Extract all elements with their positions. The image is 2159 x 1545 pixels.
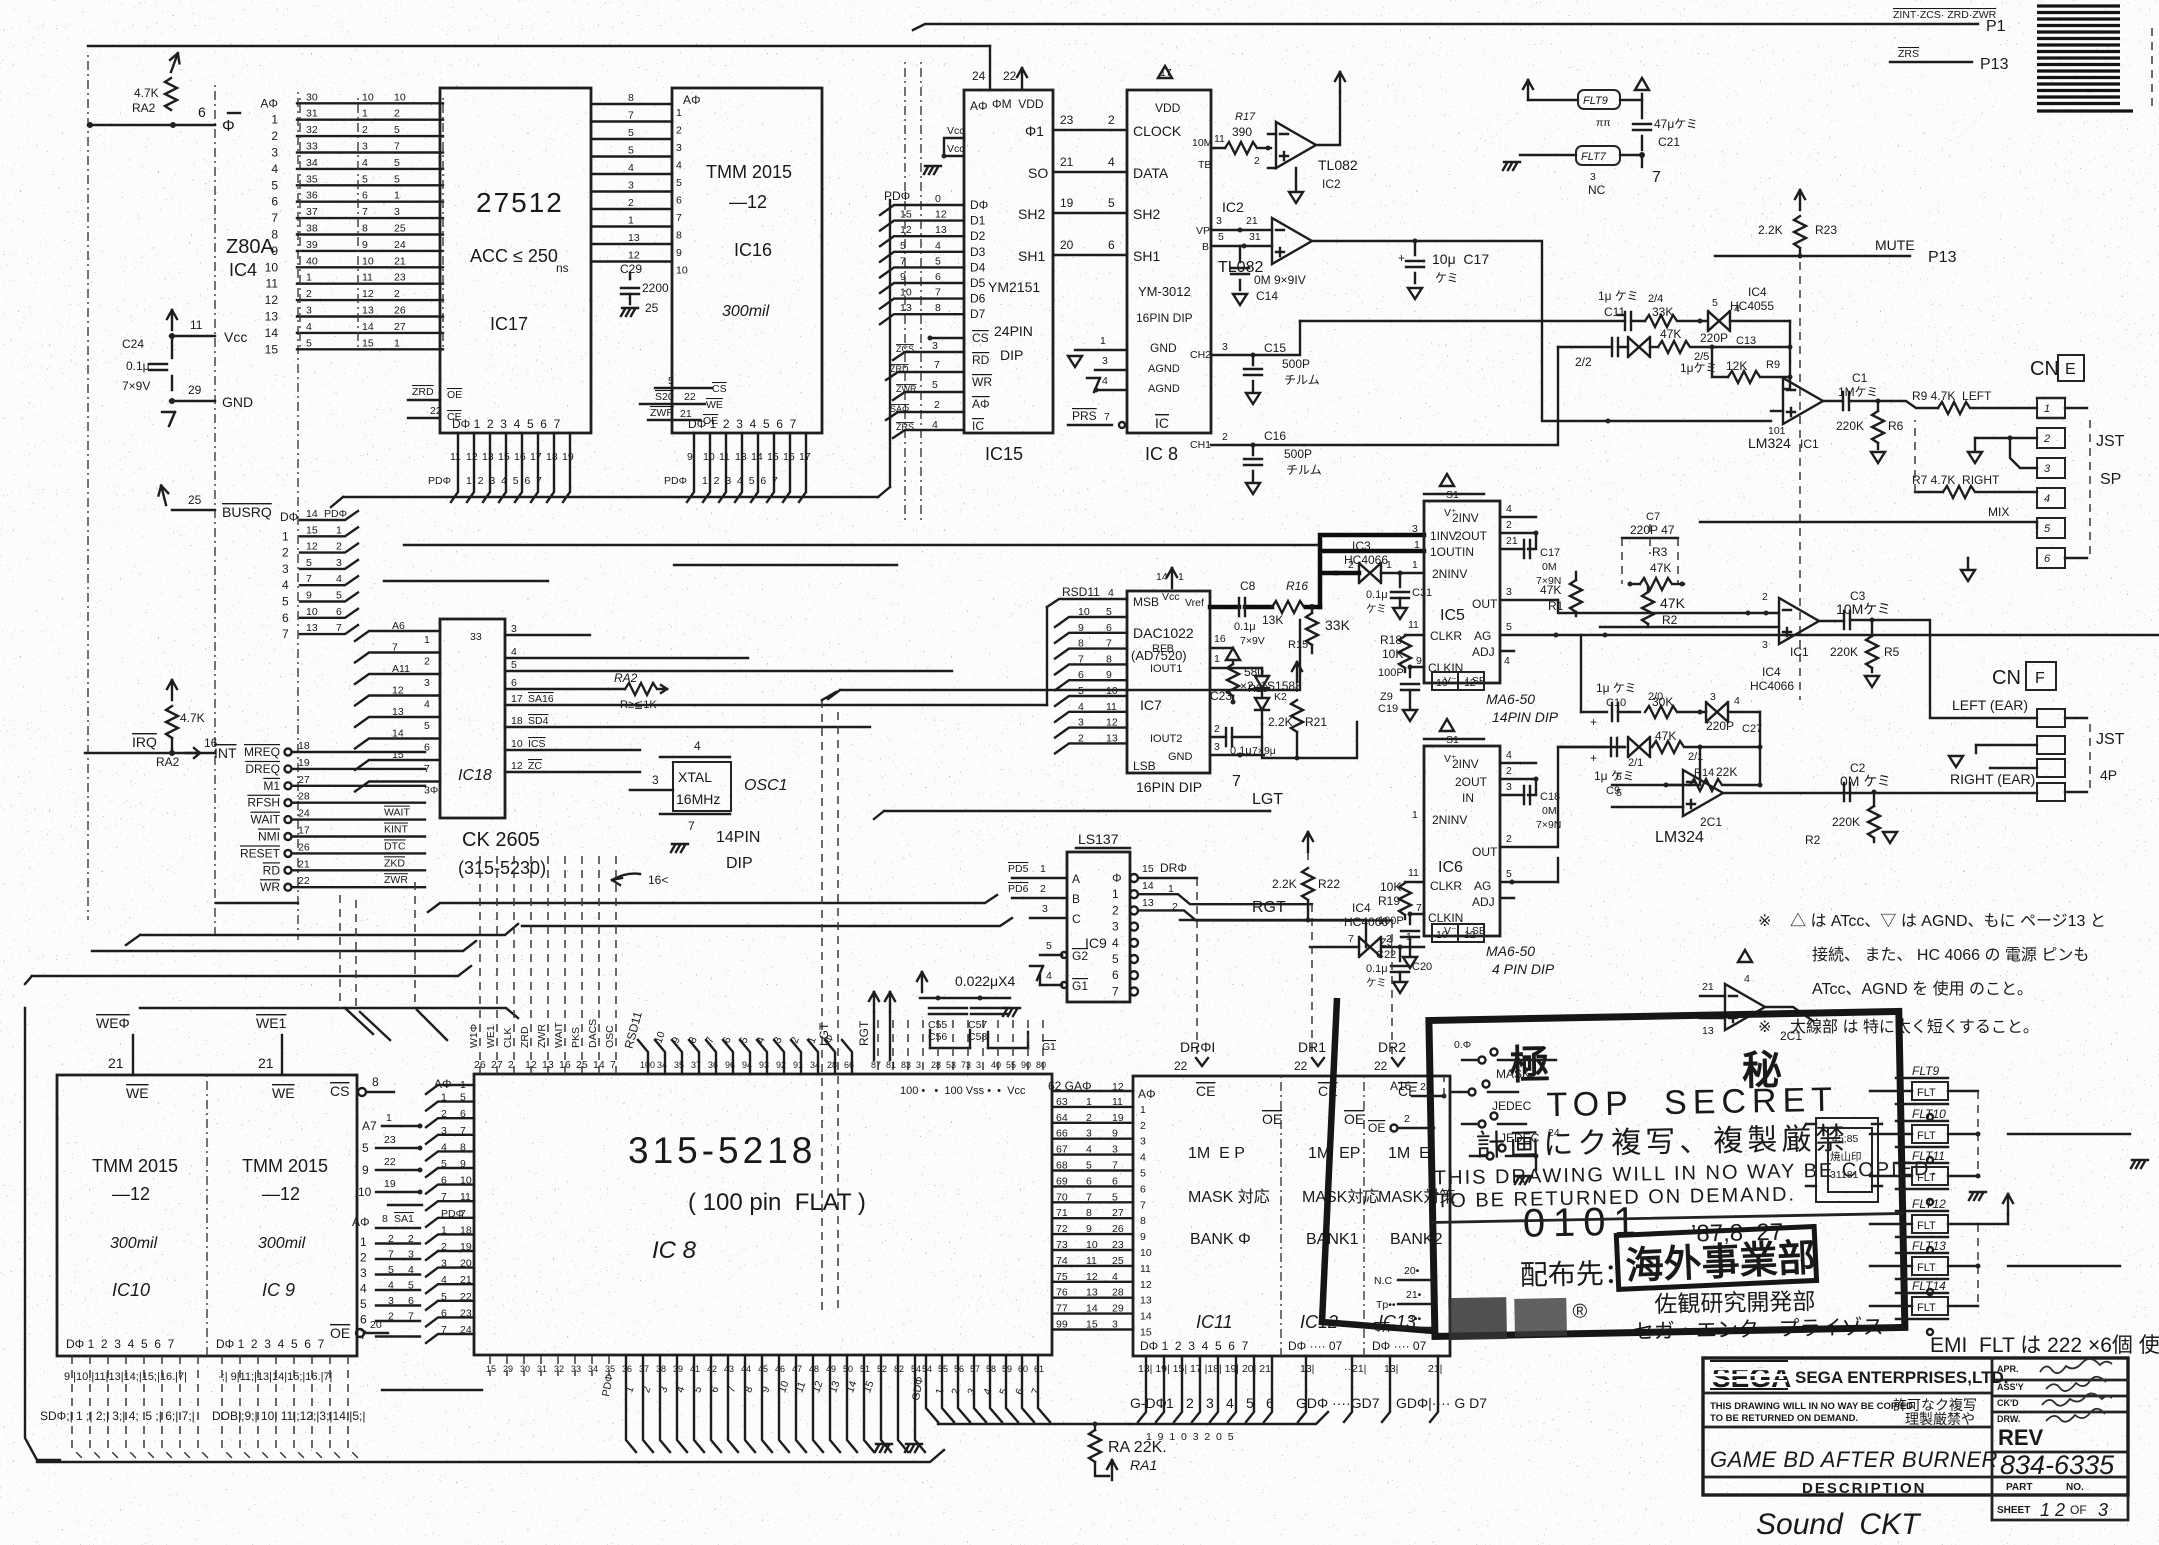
- svg-text:10: 10: [676, 265, 688, 277]
- svg-text:25: 25: [645, 301, 659, 315]
- svg-text:OUT: OUT: [1472, 845, 1498, 859]
- svg-text:13: 13: [542, 1059, 554, 1071]
- resistor R21 2.2K: [1268, 662, 1327, 758]
- capacitor C3 10u out left channel: [1836, 589, 1891, 629]
- svg-text:OE: OE: [1262, 1111, 1282, 1127]
- svg-text:3: 3: [1710, 691, 1716, 703]
- svg-text:TMM 2015: TMM 2015: [92, 1156, 178, 1176]
- wire TL082 b output net: [1312, 241, 1771, 421]
- svg-text:IC 8: IC 8: [1145, 444, 1178, 464]
- svg-text:5: 5: [1086, 1160, 1092, 1172]
- svg-text:7: 7: [441, 1324, 447, 1336]
- resistor R20 580: [1210, 633, 1268, 705]
- capacitor C29: [620, 262, 669, 316]
- svg-text:C14: C14: [1256, 289, 1278, 303]
- svg-text:(315-5230): (315-5230): [458, 858, 546, 878]
- svg-text:IC4: IC4: [229, 260, 257, 280]
- svg-text:IC6: IC6: [1438, 859, 1463, 876]
- svg-text:35: 35: [306, 173, 318, 185]
- capacitor C21 47u: [1633, 100, 1698, 150]
- opamp IC1 LM324 d lower: [1700, 950, 1813, 1043]
- svg-text:E: E: [2065, 361, 2076, 378]
- svg-text:5: 5: [668, 375, 674, 387]
- svg-text:4: 4: [1108, 587, 1114, 599]
- svg-text:3: 3: [1102, 355, 1108, 367]
- svg-text:®: ®: [1572, 1301, 1587, 1323]
- svg-text:FLT9: FLT9: [1583, 95, 1608, 107]
- svg-text:△ は ATcc、▽ は AGND、もに ページ13 と: △ は ATcc、▽ は AGND、もに ページ13 と: [1790, 912, 2106, 930]
- svg-text:5: 5: [1506, 621, 1512, 633]
- svg-text:15: 15: [767, 451, 779, 463]
- switch IC1 HC4066 a: [1708, 285, 1790, 331]
- svg-text:4: 4: [1112, 1271, 1118, 1283]
- svg-text:220K: 220K: [1836, 419, 1864, 433]
- svg-text:24PIN: 24PIN: [994, 323, 1033, 339]
- svg-text:3: 3: [424, 677, 430, 689]
- svg-text:IC2: IC2: [1322, 177, 1341, 191]
- svg-text:3: 3: [1590, 171, 1596, 183]
- svg-text:3: 3: [394, 206, 400, 218]
- svg-text:7: 7: [1348, 933, 1354, 945]
- svg-text:13: 13: [935, 224, 947, 236]
- svg-text:+: +: [1590, 715, 1597, 729]
- svg-text:MA6-50: MA6-50: [1486, 943, 1535, 959]
- svg-text:10: 10: [703, 451, 715, 463]
- ic 31181 socket box: [1806, 1118, 1882, 1202]
- svg-text:BUSRQ: BUSRQ: [222, 504, 272, 520]
- svg-text:34: 34: [588, 1364, 598, 1374]
- svg-text:AΦ: AΦ: [1138, 1087, 1156, 1101]
- svg-text:2: 2: [394, 108, 400, 120]
- svg-text:3: 3: [1214, 741, 1220, 753]
- svg-text:47K: 47K: [1660, 595, 1686, 611]
- svg-text:C31: C31: [1412, 587, 1432, 599]
- decor hatch block top right: [2037, 6, 2133, 111]
- svg-text:23: 23: [460, 1307, 472, 1319]
- svg-text:CN: CN: [2030, 358, 2059, 380]
- svg-text:ADJ: ADJ: [1472, 895, 1495, 909]
- svg-text:RA2: RA2: [156, 755, 180, 769]
- svg-text:3: 3: [1112, 1144, 1118, 1156]
- svg-text:ZC: ZC: [528, 760, 542, 772]
- svg-text:21: 21: [1060, 155, 1074, 169]
- gate array IC18: [355, 619, 1047, 878]
- svg-text:16: 16: [1214, 633, 1226, 645]
- svg-text:DR1: DR1: [1298, 1039, 1326, 1055]
- svg-text:C20: C20: [1412, 961, 1432, 973]
- svg-text:D5: D5: [970, 276, 986, 290]
- wire top main horizontal: [88, 45, 990, 47]
- svg-text:OE: OE: [330, 1325, 350, 1341]
- svg-text:SA1: SA1: [394, 1213, 414, 1225]
- svg-text:Z3: Z3: [1380, 937, 1393, 949]
- svg-text:20•: 20•: [1404, 1265, 1420, 1277]
- svg-text:6: 6: [2044, 553, 2051, 565]
- svg-text:4P: 4P: [2100, 767, 2117, 783]
- svg-text:77: 77: [1056, 1303, 1068, 1315]
- stamp TOP SECRET block: [1429, 1011, 1941, 1348]
- wire CN E pin3 stub: [2010, 438, 2037, 468]
- svg-text:DRW.: DRW.: [1997, 1414, 2020, 1424]
- svg-text:IRQ: IRQ: [132, 734, 157, 750]
- svg-text:D3: D3: [970, 245, 986, 259]
- svg-text:ππ: ππ: [1596, 117, 1611, 129]
- svg-text:4: 4: [441, 1141, 447, 1153]
- svg-text:FLT: FLT: [1917, 1302, 1936, 1314]
- svg-text:10: 10: [460, 1175, 472, 1187]
- svg-text:佐観研究開発部: 佐観研究開発部: [1654, 1288, 1815, 1317]
- svg-text:C15: C15: [1264, 341, 1286, 355]
- svg-text:25: 25: [1112, 1255, 1124, 1267]
- note RES arrow: [612, 874, 640, 880]
- svg-text:接続、 また、 HC 4066 の 電源 ピンも: 接続、 また、 HC 4066 の 電源 ピンも: [1812, 946, 2089, 964]
- svg-text:22: 22: [460, 1291, 472, 1303]
- svg-text:WE1: WE1: [485, 1025, 497, 1048]
- svg-text:15: 15: [498, 451, 510, 463]
- svg-text:3: 3: [1412, 523, 1418, 535]
- svg-text:DΦ 1 2 3 4 5 6 7: DΦ 1 2 3 4 5 6 7: [1140, 1339, 1249, 1353]
- svg-text:2OUT: 2OUT: [1455, 775, 1488, 789]
- wire 315-5218 top control pins: [468, 856, 1046, 1074]
- svg-text:IC: IC: [972, 419, 984, 433]
- svg-text:4: 4: [424, 699, 430, 711]
- svg-text:13: 13: [1106, 732, 1118, 744]
- svg-text:21: 21: [1246, 215, 1258, 227]
- svg-text:SH2: SH2: [1018, 206, 1045, 222]
- wire GND pin3: [1210, 754, 1240, 756]
- svg-text:4: 4: [1102, 375, 1108, 387]
- svg-text:27: 27: [491, 1059, 503, 1071]
- svg-text:4: 4: [511, 646, 517, 658]
- svg-text:9: 9: [1416, 655, 1422, 667]
- note Japanese annotation block: [1758, 912, 2106, 1036]
- svg-text:Z9: Z9: [1380, 691, 1393, 703]
- svg-text:R5: R5: [1884, 645, 1900, 659]
- svg-text:10μ C17: 10μ C17: [1432, 251, 1489, 267]
- svg-text:7: 7: [1232, 773, 1241, 790]
- svg-text:IC2: IC2: [1222, 199, 1244, 215]
- svg-text:12: 12: [628, 250, 640, 262]
- svg-text:1: 1: [424, 634, 430, 646]
- svg-text:34: 34: [657, 1060, 667, 1070]
- svg-text:47K: 47K: [1660, 327, 1681, 341]
- svg-text:DΦ 1 2 3 4 5 6 7: DΦ 1 2 3 4 5 6 7: [452, 417, 561, 431]
- svg-text:8: 8: [362, 223, 368, 235]
- opamp IC2 TL082 b: [1196, 199, 1312, 276]
- svg-text:ZINT·ZCS· ZRD·ZWR: ZINT·ZCS· ZRD·ZWR: [1893, 9, 1997, 21]
- svg-text:16: 16: [559, 1059, 571, 1071]
- svg-text:2/4: 2/4: [1648, 293, 1663, 305]
- svg-text:7: 7: [676, 212, 682, 224]
- svg-text:0M: 0M: [1542, 561, 1557, 573]
- svg-text:12K: 12K: [1726, 359, 1747, 373]
- page border left: [25, 1008, 60, 1460]
- svg-text:10: 10: [265, 260, 279, 274]
- svg-text:XTAL: XTAL: [678, 769, 712, 785]
- svg-text:MUTE: MUTE: [1875, 237, 1915, 253]
- svg-text:IC1: IC1: [1800, 437, 1819, 451]
- svg-text:チルム: チルム: [1284, 373, 1320, 387]
- svg-text:2: 2: [1140, 1120, 1146, 1132]
- wire GND pin 29: [170, 400, 215, 402]
- resistor R19 10K clkin: [1378, 867, 1424, 919]
- svg-text:JEDEC: JEDEC: [1500, 1131, 1540, 1145]
- svg-text:5: 5: [676, 177, 682, 189]
- svg-text:4: 4: [1506, 503, 1512, 515]
- svg-text:68: 68: [1056, 1160, 1068, 1172]
- svg-text:21: 21: [298, 858, 310, 870]
- svg-text:※: ※: [1758, 913, 1771, 930]
- opamp IC2 TL082 a: [1254, 72, 1358, 203]
- svg-text:3: 3: [1112, 920, 1119, 934]
- svg-text:5: 5: [460, 1092, 466, 1104]
- capacitor C23: [1210, 689, 1276, 757]
- svg-text:16<: 16<: [648, 873, 668, 887]
- svg-text:7: 7: [1104, 411, 1110, 423]
- svg-text:2: 2: [934, 399, 940, 411]
- svg-text:220P: 220P: [1700, 331, 1728, 345]
- svg-text:RFSH: RFSH: [247, 796, 280, 810]
- svg-text:ZWR: ZWR: [650, 407, 674, 419]
- svg-text:8: 8: [1106, 653, 1112, 665]
- svg-text:NMI: NMI: [258, 830, 280, 844]
- svg-text:67: 67: [1056, 1144, 1068, 1156]
- svg-text:OUT: OUT: [1472, 597, 1498, 611]
- svg-text:PRS: PRS: [1072, 409, 1097, 423]
- svg-text:ACC ≤ 250: ACC ≤ 250: [470, 246, 558, 266]
- svg-text:66: 66: [844, 1060, 854, 1070]
- svg-text:YM2151: YM2151: [988, 279, 1040, 295]
- svg-text:2: 2: [336, 541, 342, 553]
- svg-text:FLT: FLT: [1917, 1220, 1936, 1232]
- analog filter IC6: [1412, 719, 1555, 977]
- svg-text:DR2: DR2: [1378, 1039, 1406, 1055]
- svg-text:20: 20: [1060, 238, 1074, 252]
- svg-text:7: 7: [1086, 1191, 1092, 1203]
- svg-text:100 • • 100 Vss • • Vcc: 100 • • 100 Vss • • Vcc: [900, 1085, 1026, 1097]
- svg-text:5: 5: [1140, 1168, 1146, 1180]
- svg-text:5: 5: [306, 337, 312, 349]
- capacitor C12 1u: [1558, 338, 1717, 375]
- svg-text:WAIT: WAIT: [384, 807, 410, 819]
- svg-text:71: 71: [1056, 1207, 1068, 1219]
- svg-text:CLKR: CLKR: [1430, 879, 1462, 893]
- svg-text:8: 8: [372, 1075, 379, 1089]
- svg-text:WE: WE: [272, 1085, 295, 1101]
- wire TMM A0-A7 ladder to 315-5218: [352, 1213, 420, 1342]
- svg-text:D4: D4: [970, 260, 986, 274]
- svg-text:FLT: FLT: [1917, 1172, 1936, 1184]
- svg-text:1OUT: 1OUT: [1430, 545, 1463, 559]
- svg-text:THIS DRAWING WILL IN NO WAY BE: THIS DRAWING WILL IN NO WAY BE COPIED.: [1710, 1401, 1916, 1412]
- wire Vcc pin 11: [170, 335, 215, 337]
- svg-text:9: 9: [676, 247, 682, 259]
- svg-text:3••: 3••: [1408, 1313, 1422, 1325]
- svg-text:24: 24: [1420, 1081, 1432, 1093]
- svg-text:1M EP: 1M EP: [1308, 1145, 1360, 1162]
- svg-text:22: 22: [430, 405, 442, 417]
- svg-text:14: 14: [362, 321, 374, 333]
- svg-text:6: 6: [1086, 1175, 1092, 1187]
- svg-text:JEDEC: JEDEC: [1492, 1099, 1532, 1113]
- svg-text:WE1: WE1: [256, 1015, 287, 1031]
- svg-text:IC18: IC18: [458, 767, 492, 784]
- svg-text:20: 20: [460, 1258, 472, 1270]
- svg-text:BANK Φ: BANK Φ: [1190, 1231, 1251, 1248]
- svg-text:3: 3: [1140, 1136, 1146, 1148]
- svg-text:FLT: FLT: [1917, 1262, 1936, 1274]
- svg-text:4: 4: [1108, 155, 1115, 169]
- svg-text:MSB: MSB: [1133, 595, 1159, 609]
- svg-text:24: 24: [394, 239, 406, 251]
- dac IC7 DAC1022 AD7520: [1127, 568, 1210, 795]
- svg-text:6: 6: [935, 271, 941, 283]
- svg-text:0M ケミ: 0M ケミ: [1840, 773, 1891, 789]
- svg-text:NO.: NO.: [2066, 1482, 2084, 1493]
- svg-text:Vcc: Vcc: [224, 329, 247, 345]
- svg-text:21|: 21|: [1428, 1363, 1442, 1375]
- wire PRS to IC pin 7: [1068, 424, 1112, 426]
- svg-text:G2: G2: [1072, 949, 1088, 963]
- svg-text:Φ1: Φ1: [1025, 123, 1044, 139]
- svg-text:7×9V: 7×9V: [1240, 635, 1265, 647]
- svg-text:220K: 220K: [1832, 815, 1860, 829]
- svg-text:ZWR: ZWR: [896, 384, 917, 394]
- svg-text:AΦ: AΦ: [683, 93, 701, 107]
- svg-text:2: 2: [1506, 833, 1512, 845]
- svg-text:CH2: CH2: [1190, 349, 1211, 361]
- svg-text:28: 28: [931, 1060, 941, 1070]
- svg-text:53: 53: [946, 1060, 956, 1070]
- svg-text:390: 390: [1232, 125, 1252, 139]
- svg-text:27: 27: [1112, 1207, 1124, 1219]
- svg-text:CH1: CH1: [1190, 439, 1211, 451]
- svg-text:5: 5: [932, 379, 938, 391]
- svg-text:PART: PART: [2006, 1482, 2032, 1493]
- svg-text:DACS: DACS: [587, 1019, 599, 1048]
- svg-text:3: 3: [441, 1125, 447, 1137]
- svg-text:AΦ: AΦ: [352, 1215, 370, 1229]
- svg-text:IC4: IC4: [1762, 665, 1781, 679]
- svg-text:4: 4: [362, 157, 368, 169]
- svg-text:100: 100: [640, 1060, 655, 1070]
- opamp IC1 LM324 a: [1748, 378, 1843, 451]
- svg-text:ZWR: ZWR: [536, 1024, 548, 1048]
- svg-text:27512: 27512: [476, 187, 564, 218]
- svg-text:9: 9: [460, 1158, 466, 1170]
- svg-text:21: 21: [108, 1055, 124, 1071]
- svg-text:D6: D6: [970, 292, 986, 306]
- svg-text:4: 4: [1112, 936, 1119, 950]
- svg-text:5: 5: [628, 145, 634, 157]
- svg-text:DIP: DIP: [726, 855, 753, 872]
- svg-text:29: 29: [1112, 1303, 1124, 1315]
- svg-text:15: 15: [362, 337, 374, 349]
- svg-text:31: 31: [1249, 231, 1261, 243]
- svg-text:10: 10: [358, 1185, 372, 1199]
- svg-text:5: 5: [1106, 606, 1112, 618]
- svg-text:5: 5: [394, 157, 400, 169]
- svg-text:40: 40: [991, 1060, 1001, 1070]
- svg-text:31: 31: [537, 1364, 547, 1374]
- svg-text:C1: C1: [1852, 371, 1868, 385]
- svg-text:LEFT (EAR): LEFT (EAR): [1952, 697, 2028, 713]
- svg-text:PDΦ: PDΦ: [324, 508, 347, 520]
- svg-text:24: 24: [1548, 1127, 1560, 1139]
- opamp IC1 LM324 b upper: [1558, 591, 1844, 659]
- svg-text:理製厳禁や: 理製厳禁や: [1905, 1411, 1975, 1427]
- svg-text:ZRS: ZRS: [896, 422, 914, 432]
- svg-text:16MHz: 16MHz: [676, 791, 720, 807]
- svg-text:69: 69: [1056, 1175, 1068, 1187]
- svg-text:22: 22: [384, 1156, 396, 1168]
- svg-text:—12: —12: [112, 1184, 150, 1204]
- svg-text:DΦ: DΦ: [970, 198, 988, 212]
- svg-text:1: 1: [282, 529, 289, 543]
- switch IC4 HC4066 c: [1706, 665, 1794, 735]
- wire P1 net top: [913, 24, 1978, 30]
- analog filter IC5: [1412, 474, 1559, 725]
- svg-text:26: 26: [298, 841, 310, 853]
- svg-text:9: 9: [362, 239, 368, 251]
- svg-text:11: 11: [450, 451, 461, 463]
- crystal X1 XTAL 16MHz: [630, 739, 788, 872]
- svg-text:IC4: IC4: [1748, 285, 1767, 299]
- svg-text:10: 10: [362, 91, 374, 103]
- svg-text:315-5218: 315-5218: [628, 1130, 816, 1171]
- svg-text:DRΦ: DRΦ: [1160, 861, 1187, 875]
- svg-text:834-6335: 834-6335: [2000, 1450, 2115, 1480]
- svg-text:4: 4: [282, 578, 289, 592]
- svg-text:0.Φ: 0.Φ: [1454, 1039, 1471, 1051]
- svg-text:12: 12: [1106, 717, 1118, 729]
- svg-text:GND: GND: [1150, 341, 1177, 355]
- svg-text:P13: P13: [1980, 56, 2009, 73]
- svg-text:3: 3: [652, 773, 659, 787]
- svg-text:3: 3: [1506, 781, 1512, 793]
- svg-text:5: 5: [1108, 196, 1115, 210]
- svg-text:PKS: PKS: [570, 1027, 582, 1048]
- svg-text:3: 3: [976, 1060, 981, 1070]
- svg-text:C10: C10: [1606, 697, 1626, 709]
- wire bold to IC5 inputs: [1320, 535, 1424, 607]
- svg-text:太線部 は 特に太く短くすること。: 太線部 は 特に太く短くすること。: [1790, 1018, 2039, 1036]
- svg-text:7: 7: [1140, 1199, 1146, 1211]
- svg-text:FLT14: FLT14: [1912, 1279, 1946, 1293]
- svg-text:C11: C11: [1604, 305, 1625, 319]
- resistor R1 47K input: [1540, 572, 1582, 616]
- svg-text:5: 5: [271, 178, 278, 192]
- svg-text:R23: R23: [1815, 223, 1837, 237]
- svg-text:ケミ: ケミ: [1435, 271, 1459, 285]
- svg-text:30: 30: [306, 91, 318, 103]
- wire FLT9 branch: [1523, 78, 1649, 129]
- svg-text:13: 13: [900, 302, 912, 314]
- svg-text:73: 73: [1056, 1239, 1068, 1251]
- svg-text:2: 2: [1506, 519, 1512, 531]
- svg-text:+: +: [1398, 251, 1405, 265]
- svg-text:2: 2: [441, 1108, 447, 1120]
- svg-text:1: 1: [1140, 1104, 1146, 1116]
- svg-text:RD: RD: [972, 353, 990, 367]
- svg-text:300mil: 300mil: [110, 1235, 158, 1252]
- svg-text:2: 2: [628, 197, 634, 209]
- svg-text:16PIN DIP: 16PIN DIP: [1136, 311, 1193, 325]
- svg-text:R2: R2: [1805, 833, 1821, 847]
- svg-text:GND: GND: [222, 394, 253, 410]
- svg-text:Φ: Φ: [1112, 871, 1122, 885]
- svg-text:73: 73: [961, 1060, 971, 1070]
